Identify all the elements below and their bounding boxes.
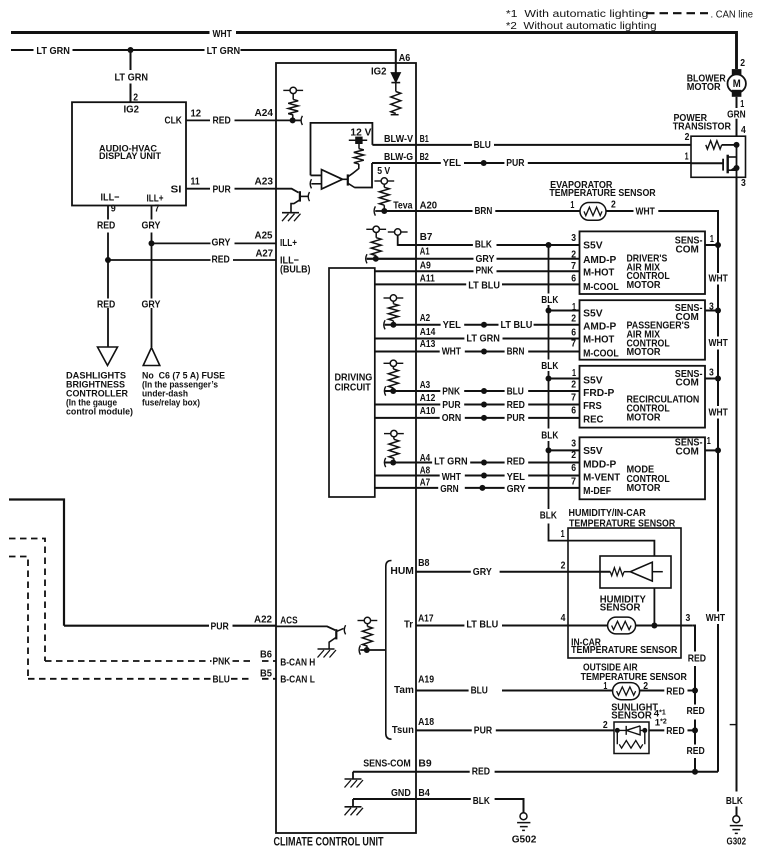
svg-text:B4: B4 bbox=[418, 787, 430, 799]
svg-text:7: 7 bbox=[571, 476, 576, 488]
wire A22 PUR from left bbox=[9, 500, 276, 626]
svg-text:BLK: BLK bbox=[541, 294, 558, 306]
svg-text:DISPLAY UNIT: DISPLAY UNIT bbox=[99, 151, 161, 162]
svg-text:LT BLU: LT BLU bbox=[501, 319, 533, 331]
svg-text:6: 6 bbox=[571, 462, 576, 474]
bracket sensor pins bbox=[386, 561, 392, 740]
svg-text:Teva: Teva bbox=[393, 200, 412, 212]
svg-text:3: 3 bbox=[571, 232, 576, 244]
wire B4 ground stub bbox=[352, 799, 354, 806]
svg-text:PUR: PUR bbox=[506, 157, 525, 169]
svg-text:LT BLU: LT BLU bbox=[468, 280, 500, 292]
sunlight sensor box bbox=[614, 722, 649, 754]
svg-text:Tsun: Tsun bbox=[392, 724, 414, 736]
svg-text:BRN: BRN bbox=[507, 345, 525, 357]
blower motor terminal top bbox=[732, 69, 742, 76]
wire S5V mode BLK bbox=[549, 449, 580, 451]
node junction A4 bbox=[390, 460, 396, 466]
tick Teva wire start bbox=[374, 206, 375, 215]
svg-text:REC: REC bbox=[583, 413, 604, 425]
wire SI A23 PUR bbox=[186, 189, 299, 193]
svg-text:A27: A27 bbox=[256, 247, 274, 259]
node junction SENS-COM recirculation control motor bbox=[715, 376, 721, 382]
tick ACS wire start bbox=[359, 645, 360, 654]
svg-text:GRY: GRY bbox=[473, 566, 492, 578]
diode sunlight photodiode bbox=[626, 726, 640, 735]
svg-text:B2: B2 bbox=[420, 151, 429, 163]
wire B7 drop bbox=[398, 235, 416, 245]
svg-text:SENSOR: SENSOR bbox=[600, 602, 641, 614]
svg-text:TEMPERATURE SENSOR: TEMPERATURE SENSOR bbox=[549, 187, 656, 199]
svg-text:PUR: PUR bbox=[442, 399, 461, 411]
svg-text:A4: A4 bbox=[420, 452, 431, 464]
svg-text:M-VENT: M-VENT bbox=[583, 471, 621, 483]
svg-text:*2 Without automatic lighting: *2 Without automatic lighting bbox=[506, 21, 657, 32]
tick A2 wire start bbox=[384, 320, 385, 329]
wire ILL+ pin7 GRY vertical bbox=[151, 206, 153, 348]
svg-text:1: 1 bbox=[572, 367, 576, 379]
svg-text:BLU: BLU bbox=[213, 674, 230, 686]
svg-text:4: 4 bbox=[561, 612, 566, 624]
svg-text:BRN: BRN bbox=[475, 205, 493, 217]
svg-text:A6: A6 bbox=[399, 52, 411, 64]
svg-text:B6: B6 bbox=[260, 649, 272, 661]
transistor Q1 base bar bbox=[299, 191, 301, 201]
diode D1 bar bbox=[391, 82, 400, 84]
svg-text:A3: A3 bbox=[420, 379, 431, 391]
svg-text:PUR: PUR bbox=[211, 621, 230, 633]
wire R-A1 to junction bbox=[375, 256, 377, 259]
svg-text:2: 2 bbox=[603, 719, 608, 731]
svg-text:7: 7 bbox=[571, 337, 576, 349]
ground B4 bbox=[345, 806, 362, 808]
svg-text:MOTOR: MOTOR bbox=[627, 482, 661, 494]
humidity sensor inner box bbox=[600, 556, 671, 588]
transistor Q2 bar bbox=[347, 174, 349, 185]
blower motor body bbox=[728, 74, 746, 92]
wire WHT top bus bbox=[11, 33, 737, 70]
svg-text:PNK: PNK bbox=[213, 656, 231, 668]
recirculation control motor box bbox=[580, 366, 706, 428]
svg-text:RED: RED bbox=[97, 298, 116, 310]
node junction BLK mode bbox=[546, 447, 552, 453]
svg-text:2: 2 bbox=[571, 379, 576, 391]
svg-text:1: 1 bbox=[561, 528, 565, 540]
wire A20 BRN bbox=[384, 210, 580, 212]
svg-text:PNK: PNK bbox=[442, 386, 460, 398]
svg-text:LT GRN: LT GRN bbox=[434, 456, 468, 468]
svg-text:LT GRN: LT GRN bbox=[36, 45, 70, 57]
wire humidity sensor to in-car junction bbox=[653, 588, 655, 626]
resistor outside air sensor bbox=[617, 687, 636, 695]
tick main line bbox=[730, 724, 737, 726]
svg-text:5 V: 5 V bbox=[377, 165, 390, 177]
svg-text:S5V: S5V bbox=[583, 308, 603, 320]
svg-text:1: 1 bbox=[685, 151, 689, 163]
pullup supply A1 bbox=[366, 228, 372, 230]
svg-text:LT GRN: LT GRN bbox=[466, 333, 500, 345]
driver's air mix control motor box bbox=[580, 231, 706, 294]
wire 5V stub bbox=[383, 184, 385, 187]
wire B-CAN L dashed bbox=[9, 557, 276, 679]
wire resistor to bus bbox=[722, 144, 737, 146]
svg-text:AMD-P: AMD-P bbox=[583, 254, 616, 266]
svg-text:12: 12 bbox=[191, 108, 202, 120]
transistor Q3 emitter bbox=[329, 637, 336, 648]
svg-text:RED: RED bbox=[666, 725, 685, 737]
pullup supply A4 bbox=[384, 433, 390, 435]
wire A2 YEL LT BLU bbox=[385, 324, 580, 326]
climate control unit box bbox=[276, 63, 416, 833]
svg-text:4: 4 bbox=[741, 124, 746, 136]
svg-text:6: 6 bbox=[571, 405, 576, 417]
ground G302 circle bbox=[733, 816, 740, 823]
svg-text:COM: COM bbox=[676, 243, 700, 255]
ground Q1 bbox=[282, 212, 299, 214]
resistor R-12V bbox=[354, 149, 364, 164]
svg-text:WHT: WHT bbox=[709, 273, 729, 285]
wire R-A2 to junction bbox=[392, 301, 394, 325]
svg-text:PUR: PUR bbox=[213, 183, 232, 195]
wire Q2 emitter to B2 bbox=[354, 163, 372, 188]
svg-text:M-DEF: M-DEF bbox=[583, 485, 611, 497]
arrow dashlights controller bbox=[98, 347, 118, 366]
mosfet gate bar bbox=[722, 159, 724, 171]
wire BLK sensor-common vertical bbox=[549, 245, 569, 541]
wire resistor to junction bbox=[292, 115, 294, 121]
wire A27 RED bbox=[108, 259, 276, 261]
wire CLK A24 RED bbox=[186, 119, 293, 121]
tick A3 wire start bbox=[384, 386, 385, 395]
svg-text:3: 3 bbox=[709, 366, 714, 378]
svg-text:2: 2 bbox=[571, 313, 576, 325]
svg-text:2: 2 bbox=[561, 559, 566, 571]
node junction LT GRN to display unit bbox=[128, 47, 134, 53]
node splice A4 LT GRN RED bbox=[481, 460, 487, 466]
svg-text:BLK: BLK bbox=[540, 510, 557, 522]
svg-text:LT GRN: LT GRN bbox=[115, 72, 149, 84]
wire S5V recirc BLK bbox=[549, 378, 580, 380]
node junction sun left bbox=[615, 728, 620, 733]
tick op-amp lower input bbox=[310, 179, 311, 188]
mode control motor box bbox=[580, 437, 706, 499]
svg-text:GRY: GRY bbox=[212, 237, 231, 249]
wire SENS-COM mode control motor bbox=[705, 449, 718, 451]
svg-text:3: 3 bbox=[741, 177, 746, 189]
svg-text:fuse/relay box): fuse/relay box) bbox=[142, 397, 200, 407]
wire R-ACS to junction bbox=[366, 646, 368, 650]
wire LT GRN bus bbox=[11, 50, 396, 63]
op-amp U1 triangle bbox=[322, 170, 343, 189]
wire BLK inside sensor box bbox=[568, 541, 654, 556]
svg-text:IG2: IG2 bbox=[371, 65, 387, 77]
svg-text:Tr: Tr bbox=[404, 619, 413, 631]
wire A3 PNK BLU bbox=[385, 390, 580, 392]
svg-text:12 V: 12 V bbox=[350, 127, 371, 139]
svg-text:SI: SI bbox=[171, 184, 182, 196]
wire Teva stub bbox=[375, 210, 384, 212]
ground G502 bars bbox=[517, 823, 530, 831]
svg-text:YEL: YEL bbox=[507, 471, 526, 483]
svg-text:BLK: BLK bbox=[726, 795, 743, 807]
svg-text:A8: A8 bbox=[420, 465, 431, 477]
svg-text:GRY: GRY bbox=[142, 219, 161, 231]
svg-text:M-HOT: M-HOT bbox=[583, 267, 615, 279]
svg-text:B7: B7 bbox=[420, 231, 433, 243]
wire A7 GRN GRY bbox=[375, 487, 580, 489]
svg-text:WHT: WHT bbox=[442, 471, 462, 483]
tick R-IG2 end bbox=[391, 114, 399, 116]
svg-text:MOTOR: MOTOR bbox=[627, 412, 661, 424]
wire A14 LT GRN bbox=[375, 338, 580, 340]
node junction in-car bbox=[651, 623, 657, 629]
node junction SENS-COM driver's air mix control motor bbox=[715, 242, 721, 248]
node splice A2 YEL LT BLU bbox=[481, 322, 487, 328]
pullup supply A3 bbox=[384, 362, 390, 364]
diode D1 IG2 bbox=[391, 73, 400, 82]
svg-text:RED: RED bbox=[666, 686, 685, 698]
svg-text:YEL: YEL bbox=[443, 319, 462, 331]
wire A12 PUR RED bbox=[375, 404, 580, 406]
node splice A12 PUR RED bbox=[481, 402, 487, 408]
ground Q3 bbox=[318, 648, 335, 650]
wire op-amp lower input bbox=[311, 183, 321, 185]
svg-text:B1: B1 bbox=[420, 133, 429, 145]
svg-text:A18: A18 bbox=[418, 716, 434, 728]
wire A1 stub bbox=[375, 233, 377, 238]
svg-text:A24: A24 bbox=[255, 107, 274, 119]
svg-text:GRY: GRY bbox=[507, 483, 526, 495]
svg-text:TEMPERATURE SENSOR: TEMPERATURE SENSOR bbox=[581, 671, 688, 683]
svg-text:IG2: IG2 bbox=[124, 103, 140, 115]
svg-text:S5V: S5V bbox=[583, 375, 603, 387]
wire ILL- pin9 RED vertical bbox=[107, 206, 109, 347]
svg-text:7: 7 bbox=[571, 260, 576, 272]
svg-text:2: 2 bbox=[611, 198, 616, 210]
svg-text:PUR: PUR bbox=[474, 725, 493, 737]
resistor in-car sensor bbox=[612, 621, 632, 629]
svg-text:COM: COM bbox=[676, 311, 700, 323]
svg-text:WHT: WHT bbox=[636, 206, 656, 218]
svg-text:2: 2 bbox=[571, 248, 576, 260]
svg-text:M-COOL: M-COOL bbox=[583, 347, 619, 359]
svg-text:G302: G302 bbox=[727, 836, 747, 848]
wire IG2 drop to display unit bbox=[130, 50, 132, 102]
outside air temperature sensor body bbox=[613, 683, 640, 700]
resistor sunlight parallel bbox=[617, 730, 645, 744]
wire A24 stub inside bbox=[293, 119, 301, 121]
svg-text:1: 1 bbox=[570, 199, 574, 211]
svg-text:A2: A2 bbox=[420, 312, 431, 324]
wire A25 GRY bbox=[152, 242, 277, 244]
transistor Q3 collector bbox=[336, 628, 343, 631]
mosfet channel bar bbox=[727, 155, 729, 174]
ground G302 bars bbox=[730, 826, 743, 834]
wire ACS pullup to bracket bbox=[360, 649, 386, 651]
tick Q1 collector bbox=[308, 192, 309, 201]
svg-text:BLK: BLK bbox=[541, 360, 558, 372]
wire op-amp feedback loop from B1 bbox=[311, 123, 373, 175]
svg-text:GRY: GRY bbox=[142, 298, 161, 310]
blower motor terminal bottom bbox=[732, 90, 742, 97]
wire amp output bbox=[652, 571, 663, 573]
svg-text:BLU: BLU bbox=[471, 685, 488, 697]
svg-text:COM: COM bbox=[676, 377, 700, 389]
driving circuit box bbox=[329, 268, 375, 497]
pullup supply 5V bbox=[374, 180, 380, 182]
svg-text:CIRCUIT: CIRCUIT bbox=[335, 382, 371, 393]
svg-text:A14: A14 bbox=[420, 326, 436, 338]
svg-text:TRANSISTOR: TRANSISTOR bbox=[673, 121, 732, 133]
svg-text:A17: A17 bbox=[418, 613, 434, 625]
svg-text:BLK: BLK bbox=[473, 795, 490, 807]
pullup supply A2 bbox=[384, 297, 390, 299]
resistor R-A3 bbox=[388, 369, 398, 388]
svg-text:BLW-G: BLW-G bbox=[384, 151, 413, 163]
wire A6 into unit bbox=[395, 63, 397, 73]
svg-text:A20: A20 bbox=[420, 200, 438, 212]
svg-text:S5V: S5V bbox=[583, 445, 603, 457]
node splice A13 WHT BRN bbox=[481, 349, 487, 355]
wire blower to transistor bbox=[736, 97, 738, 136]
wire A19 BLU bbox=[416, 690, 695, 692]
svg-text:BLW-V: BLW-V bbox=[384, 133, 413, 145]
svg-text:S5V: S5V bbox=[583, 240, 603, 252]
node splice A8 WHT YEL bbox=[481, 473, 487, 479]
tick A1 wire start bbox=[366, 254, 367, 263]
svg-text:BLK: BLK bbox=[475, 239, 492, 251]
svg-text:A13: A13 bbox=[420, 338, 436, 350]
tick A4 wire start bbox=[384, 458, 385, 467]
svg-text:A10: A10 bbox=[420, 405, 436, 417]
svg-text:11: 11 bbox=[191, 176, 200, 188]
svg-text:BLK: BLK bbox=[541, 429, 558, 441]
node junction SENS-COM mode control motor bbox=[715, 447, 721, 453]
wire A9 PNK bbox=[375, 270, 580, 272]
svg-text:RED: RED bbox=[472, 766, 491, 778]
svg-text:RED: RED bbox=[687, 745, 706, 757]
wire pt gate bbox=[691, 162, 723, 164]
svg-text:RED: RED bbox=[212, 253, 231, 265]
svg-text:2: 2 bbox=[571, 449, 576, 461]
wire B9 SENS-COM RED bbox=[353, 771, 718, 773]
node junction A1 bbox=[373, 256, 379, 262]
svg-text:CLK: CLK bbox=[165, 115, 183, 127]
wire main ground line bbox=[736, 177, 738, 815]
node splice YEL-PUR b2 bbox=[481, 160, 487, 166]
node junction ACS bbox=[364, 647, 370, 653]
resistor R-Teva bbox=[379, 187, 389, 205]
svg-text:RED: RED bbox=[507, 456, 526, 468]
svg-text:A25: A25 bbox=[255, 230, 273, 242]
svg-text:PUR: PUR bbox=[507, 412, 526, 424]
svg-text:A23: A23 bbox=[255, 176, 274, 188]
in-car temperature sensor body bbox=[608, 617, 636, 634]
svg-text:WHT: WHT bbox=[706, 612, 726, 624]
wire A8 WHT YEL bbox=[375, 475, 580, 477]
svg-text:ORN: ORN bbox=[442, 412, 462, 424]
svg-text:MOTOR: MOTOR bbox=[627, 279, 661, 291]
node splice A3 PNK BLU bbox=[481, 388, 487, 394]
svg-text:WHT: WHT bbox=[442, 345, 462, 357]
svg-text:ILL+: ILL+ bbox=[280, 237, 297, 249]
svg-text:LT BLU: LT BLU bbox=[466, 619, 498, 631]
wire diode to resistor bbox=[395, 83, 397, 92]
svg-text:WHT: WHT bbox=[213, 28, 233, 40]
wire A4 LT GRN RED bbox=[385, 462, 580, 464]
svg-text:A11: A11 bbox=[420, 272, 435, 284]
svg-text:LT GRN: LT GRN bbox=[207, 45, 241, 57]
transistor Q3 base bar bbox=[335, 629, 337, 639]
svg-text:A19: A19 bbox=[418, 674, 434, 686]
wire A1 stub inside bbox=[367, 258, 416, 260]
svg-text:GRN: GRN bbox=[440, 483, 459, 495]
svg-text:2: 2 bbox=[685, 131, 690, 143]
svg-text:1: 1 bbox=[707, 435, 711, 447]
wire WHT sens-com vertical bbox=[717, 245, 719, 772]
transistor Q2 base wire bbox=[343, 178, 348, 180]
resistor R-A1 bbox=[371, 238, 381, 256]
svg-text:A12: A12 bbox=[420, 392, 436, 404]
transistor Q2 emitter bbox=[348, 183, 355, 187]
node junction ILL+ A25 bbox=[149, 240, 155, 246]
svg-text:. CAN line: . CAN line bbox=[711, 9, 754, 20]
svg-text:B9: B9 bbox=[418, 758, 431, 770]
svg-text:3: 3 bbox=[571, 437, 576, 449]
node junction Teva bbox=[381, 208, 387, 214]
svg-text:SENS-COM: SENS-COM bbox=[363, 758, 411, 770]
svg-text:2: 2 bbox=[740, 57, 745, 69]
ground G502 circle bbox=[520, 813, 527, 820]
wire A11 LT BLU bbox=[375, 283, 580, 285]
svg-text:Tam: Tam bbox=[394, 684, 414, 696]
pullup supply A24 bbox=[283, 89, 289, 91]
wire A18 PUR bbox=[416, 729, 695, 731]
node junction pt bottom bbox=[734, 165, 740, 171]
wire resistor to Teva junction bbox=[383, 205, 385, 211]
transistor Q1 collector bbox=[300, 195, 308, 197]
pullup supply ACS bbox=[358, 620, 364, 622]
node junction A2 bbox=[390, 322, 396, 328]
power transistor box bbox=[691, 136, 746, 177]
svg-text:G502: G502 bbox=[512, 834, 537, 846]
svg-text:*1 With automatic lighting: *1 With automatic lighting bbox=[506, 9, 649, 20]
wire S5V passenger BLK bbox=[549, 310, 580, 312]
svg-text:MOTOR: MOTOR bbox=[627, 346, 661, 358]
svg-text:MDD-P: MDD-P bbox=[583, 458, 616, 470]
node junction RED tam bbox=[692, 688, 698, 694]
wire ACS pullup stub bbox=[366, 624, 368, 627]
resistor sunlight zigzag bbox=[619, 741, 643, 749]
wire B9 ground stub bbox=[352, 772, 354, 779]
amplifier triangle humidity bbox=[630, 562, 652, 581]
svg-text:6: 6 bbox=[571, 273, 576, 285]
node junction SENS-COM passenger's air mix control motor bbox=[715, 308, 721, 314]
node junction BLK passenger bbox=[546, 308, 552, 314]
wire SENS-COM passenger's air mix control motor bbox=[705, 310, 718, 312]
svg-text:FRD-P: FRD-P bbox=[583, 387, 614, 399]
svg-text:GRY: GRY bbox=[476, 253, 495, 265]
humidity in-car sensor box bbox=[568, 528, 681, 658]
svg-text:9: 9 bbox=[111, 203, 116, 215]
resistor A24 pullup bbox=[288, 100, 298, 115]
svg-text:RED: RED bbox=[687, 705, 706, 717]
node splice A10 ORN PUR bbox=[481, 415, 487, 421]
wire A10 ORN PUR bbox=[375, 417, 580, 419]
svg-text:PNK: PNK bbox=[476, 265, 494, 277]
resistor R-ACS bbox=[362, 626, 372, 646]
svg-text:B-CAN H: B-CAN H bbox=[280, 657, 315, 669]
